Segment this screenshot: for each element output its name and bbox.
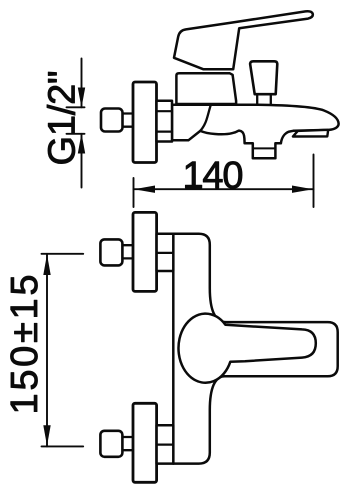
150 dimension line <box>46 254 48 447</box>
140 extension line left <box>133 178 135 207</box>
G1/2 dimension line upper segment <box>81 59 83 108</box>
lever handle (top view) <box>174 11 313 69</box>
aerator box flange line (top view) <box>253 147 276 149</box>
svg-text:140: 140 <box>183 155 244 197</box>
140 dimension line <box>134 188 314 190</box>
lower hex nut facet line (front view) <box>157 444 174 446</box>
140 arrow right <box>292 186 313 193</box>
140 arrow left <box>134 186 155 193</box>
escutcheon plate (top view) <box>133 82 157 163</box>
lower escutcheon plate (front view) <box>133 403 157 482</box>
upper connector neck (front view) <box>122 245 135 258</box>
G1/2 tick lower <box>67 133 85 135</box>
hex nut (top view) <box>157 101 173 142</box>
lower connector neck (front view) <box>122 437 135 450</box>
150 arrow down <box>43 425 50 446</box>
upper escutcheon plate (front view) <box>133 212 157 291</box>
body and spout outline (top view) <box>172 105 339 159</box>
lower hex nut (front view) <box>157 425 174 463</box>
wall connector neck (top view) <box>121 114 134 127</box>
svg-text:150±15: 150±15 <box>4 275 46 415</box>
G1/2 arrow up <box>78 133 85 153</box>
150 extension line bottom <box>42 445 84 447</box>
spout tip aerator ring (top view) <box>293 130 328 137</box>
spout root inner curve (top view) <box>200 106 210 131</box>
svg-text:G1/2": G1/2" <box>42 71 84 166</box>
150 arrow up <box>43 254 50 275</box>
150 extension line top <box>42 253 84 255</box>
eccentric nipple (top view) <box>101 109 123 132</box>
upper eccentric nipple (front view) <box>100 239 122 265</box>
upper hex nut facet line (front view) <box>157 252 174 254</box>
hex nut facet lines (top view) <box>157 111 173 131</box>
upper hex nut (front view) <box>157 234 174 271</box>
140 extension line right <box>313 155 315 208</box>
G1/2 dimension line lower segment <box>81 134 83 188</box>
handle base / cartridge cover (top view) <box>176 73 236 104</box>
diverter knob (top view) <box>250 61 277 94</box>
mixer body with side plate (front view) <box>173 234 337 464</box>
G1/2 tick upper <box>67 106 85 108</box>
diverter knob neck (top view) <box>257 96 271 104</box>
lower eccentric nipple (front view) <box>100 431 122 457</box>
G1/2 arrow down <box>78 88 85 108</box>
lever handle with knob boss (front view) <box>178 314 315 383</box>
